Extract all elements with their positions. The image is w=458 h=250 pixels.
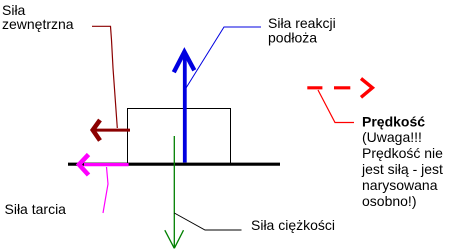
svg-text:narysowana: narysowana xyxy=(362,177,438,193)
red leader line xyxy=(318,90,354,123)
magenta friction arrow shaft xyxy=(84,163,129,166)
svg-text:Prędkość: Prędkość xyxy=(362,113,425,129)
svg-text:zewnętrzna: zewnętrzna xyxy=(2,16,74,32)
ground line xyxy=(68,163,280,166)
red dashed velocity arrow xyxy=(307,86,350,89)
black leader line for gravity label xyxy=(174,213,241,230)
red velocity arrowhead xyxy=(361,79,372,98)
dark red arrowhead xyxy=(93,120,100,141)
dark red leader line xyxy=(92,26,117,128)
svg-text:Siła tarcia: Siła tarcia xyxy=(5,201,67,217)
magenta leader line xyxy=(103,167,108,213)
blue normal-force arrow shaft xyxy=(183,52,187,163)
svg-text:(Uwaga!!!: (Uwaga!!! xyxy=(362,129,422,145)
green gravity arrow shaft xyxy=(173,136,175,248)
dark red external-force arrow shaft xyxy=(95,129,130,132)
svg-text:osobno!): osobno!) xyxy=(362,193,416,209)
green gravity arrowhead xyxy=(165,230,184,248)
svg-text:jest siłą - jest: jest siłą - jest xyxy=(361,161,443,177)
block (box on ground) xyxy=(128,109,231,165)
svg-text:Prędkość nie: Prędkość nie xyxy=(362,145,443,161)
blue arrowhead xyxy=(174,52,195,73)
blue leader line xyxy=(186,27,261,88)
svg-text:podłoża: podłoża xyxy=(268,30,317,46)
magenta arrowhead xyxy=(79,155,89,176)
svg-text:Siła ciężkości: Siła ciężkości xyxy=(251,217,335,233)
